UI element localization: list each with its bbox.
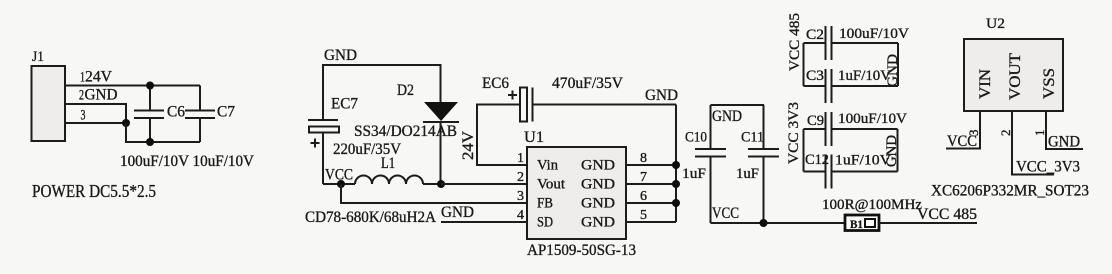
svg-text:100uF/10V 10uF/10V: 100uF/10V 10uF/10V [120, 153, 254, 170]
svg-text:8: 8 [640, 151, 647, 166]
svg-text:C9: C9 [807, 113, 824, 129]
svg-text:VCC: VCC [947, 133, 977, 150]
wire 24V rail [65, 85, 200, 87]
svg-text:1: 1 [1032, 130, 1047, 137]
svg-text:1: 1 [517, 151, 524, 166]
IC U2 [964, 16, 1063, 111]
svg-text:GND: GND [885, 54, 901, 87]
svg-text:VCC 485: VCC 485 [787, 13, 803, 71]
svg-text:GND: GND [581, 196, 615, 212]
junction VCC feedback tap [337, 180, 345, 188]
capacitor C12 [804, 152, 898, 189]
svg-text:U1: U1 [524, 129, 544, 146]
svg-text:GND: GND [324, 47, 357, 64]
junction pin2/pin3 [122, 119, 130, 127]
svg-text:FB: FB [537, 196, 553, 212]
diode D2 [354, 82, 459, 184]
wire pin 8 [626, 164, 676, 166]
pin 1 of J1, net 24V [80, 69, 112, 86]
svg-text:VCC: VCC [712, 205, 739, 222]
junction C6 bottom [146, 138, 154, 146]
svg-text:100uF/10V: 100uF/10V [839, 26, 909, 42]
svg-text:GND: GND [645, 87, 678, 104]
wire 24V input to Vin pin 1 [477, 105, 527, 166]
wire GND top rail C10 C11 [711, 104, 765, 106]
svg-text:EC7: EC7 [331, 96, 358, 113]
svg-text:C11: C11 [741, 130, 764, 146]
pin numbers U1 right [640, 151, 647, 223]
capacitor EC6 [482, 75, 623, 122]
junction pin 8 [672, 161, 680, 169]
svg-text:3: 3 [517, 189, 524, 204]
wire GND right rail (bottom group) [897, 129, 899, 172]
svg-text:L1: L1 [381, 155, 395, 172]
svg-text:VSS: VSS [1041, 68, 1058, 99]
wire pin 7 [626, 183, 676, 185]
wire VCC485 left rail [803, 43, 805, 86]
connector J1 [32, 49, 66, 141]
wire GND rail vertical [675, 105, 677, 223]
svg-text:C12: C12 [805, 152, 829, 168]
svg-text:C7: C7 [217, 104, 235, 121]
wire pin 6 [626, 202, 676, 204]
svg-text:C3: C3 [806, 68, 824, 84]
junction C6 top [146, 82, 154, 90]
svg-text:4: 4 [517, 208, 524, 223]
svg-text:24V: 24V [85, 69, 112, 86]
svg-text:GND: GND [1048, 134, 1080, 151]
svg-text:6: 6 [640, 189, 647, 204]
svg-text:VCC 485: VCC 485 [917, 206, 977, 223]
svg-text:GND: GND [581, 158, 615, 174]
junction pin 7 [672, 180, 680, 188]
svg-text:GND: GND [581, 215, 615, 231]
pin 2 of J1, net GND [79, 87, 118, 104]
svg-text:SS34/DO214AB: SS34/DO214AB [354, 123, 457, 140]
capacitor EC7 [308, 96, 401, 185]
wire VCC bottom rail to bead [711, 222, 846, 224]
wire pin 3 [65, 122, 126, 124]
inductor L1 [305, 155, 436, 226]
svg-text:Vout: Vout [537, 177, 566, 193]
svg-text:24V: 24V [460, 131, 477, 160]
svg-text:2: 2 [79, 88, 84, 104]
svg-text:CD78-680K/68uH2A: CD78-680K/68uH2A [305, 209, 436, 226]
wire GND top rail [323, 65, 441, 120]
capacitor C3 [804, 68, 899, 103]
junction pin 6 [672, 199, 680, 207]
svg-text:Vin: Vin [537, 158, 558, 174]
svg-text:7: 7 [640, 170, 647, 185]
svg-text:2: 2 [998, 130, 1013, 137]
IC U1 [524, 129, 636, 259]
wire VCC3V3 left rail [803, 129, 805, 172]
svg-text:D2: D2 [397, 82, 414, 99]
svg-text:VCC_3V3: VCC_3V3 [1016, 159, 1080, 176]
wire ground bottom rail [126, 123, 200, 142]
svg-text:VIN: VIN [977, 69, 994, 99]
svg-text:GND: GND [441, 204, 474, 221]
wire GND right rail (top group) [897, 43, 899, 86]
svg-text:SD: SD [537, 215, 553, 231]
svg-text:3: 3 [81, 108, 86, 124]
svg-text:100R@100MHz: 100R@100MHz [822, 197, 922, 213]
svg-text:EC6: EC6 [482, 75, 509, 92]
wire VCC to inductor [323, 183, 355, 185]
svg-text:1uF: 1uF [736, 166, 759, 182]
svg-text:1uF: 1uF [682, 166, 706, 182]
svg-text:GND: GND [581, 177, 615, 193]
ferrite bead B1 [845, 215, 879, 231]
wire inductor to SW node [423, 183, 441, 185]
wire U2 VIN to VCC [946, 111, 980, 149]
svg-text:AP1509-50SG-13: AP1509-50SG-13 [527, 242, 636, 259]
svg-text:470uF/35V: 470uF/35V [552, 75, 623, 92]
svg-text:100uF/10V: 100uF/10V [838, 111, 907, 127]
svg-text:GND: GND [712, 108, 742, 125]
wire EC6 to GND rail [533, 104, 677, 106]
capacitor C6 [134, 86, 185, 143]
capacitor C2 [804, 26, 910, 60]
capacitor C7 [185, 86, 235, 143]
svg-text:POWER DC5.5*2.5: POWER DC5.5*2.5 [32, 181, 156, 201]
svg-text:B1: B1 [850, 217, 863, 231]
svg-text:VOUT: VOUT [1007, 53, 1024, 100]
junction SW node [437, 180, 445, 188]
svg-text:C6: C6 [167, 104, 185, 121]
capacitor C9 [804, 111, 908, 146]
junction C11 bottom [760, 219, 768, 227]
wire pin 2 to ground rail [65, 104, 126, 123]
wire feedback to FB pin 3 [341, 184, 527, 203]
wire pin 5 [626, 221, 676, 223]
svg-text:J1: J1 [32, 49, 44, 65]
wire U2 VSS to GND [1046, 111, 1083, 149]
capacitor C10 [682, 105, 726, 223]
svg-text:5: 5 [640, 208, 647, 223]
capacitor C11 [736, 105, 779, 223]
wire bead to VCC 485 [879, 222, 977, 224]
wire SD pin 4 stub [441, 221, 527, 223]
svg-text:VCC 3V3: VCC 3V3 [786, 102, 802, 164]
wire U2 VOUT down [1012, 111, 1054, 175]
svg-text:2: 2 [517, 170, 524, 185]
svg-text:GND: GND [884, 135, 900, 167]
svg-text:1uF/10V: 1uF/10V [835, 153, 891, 169]
svg-text:C2: C2 [806, 27, 824, 43]
svg-text:1uF/10V: 1uF/10V [838, 68, 891, 84]
wire SW node to Vout pin 2 [441, 183, 527, 185]
pin numbers U1 left [517, 151, 524, 223]
svg-text:GND: GND [85, 87, 118, 104]
svg-text:C10: C10 [685, 130, 707, 146]
svg-text:U2: U2 [986, 16, 1005, 32]
svg-text:XC6206P332MR_SOT23: XC6206P332MR_SOT23 [931, 183, 1089, 200]
